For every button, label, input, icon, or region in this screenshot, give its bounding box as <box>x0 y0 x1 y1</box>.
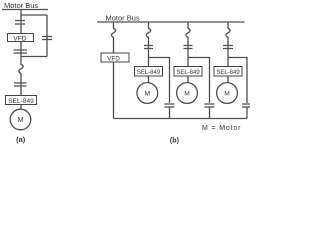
label: Motor Bus (diagram a) <box>4 1 38 10</box>
bottom VFD bus (b) <box>114 118 248 120</box>
fuse in VFD feeder (b) <box>111 26 115 38</box>
wire: VFD to bottom bus (b) <box>113 62 115 119</box>
caption (b) <box>170 135 180 144</box>
wire: bus to VFD (a) <box>20 10 22 34</box>
svg-text:M = Motor: M = Motor <box>202 125 241 132</box>
disconnect in tap 2 (b) <box>205 104 215 107</box>
bus bar (diagram b) <box>97 21 245 23</box>
svg-text:SEL-849: SEL-849 <box>8 98 34 105</box>
wire: bypass branch top (a) <box>21 14 47 16</box>
wire: bus drop branch 1 (b) <box>148 22 150 26</box>
wire: SEL-849 to motor 1 (b) <box>148 76 150 83</box>
disconnect above SEL-849 (a) <box>14 83 27 86</box>
svg-text:M: M <box>184 91 190 98</box>
fuse branch 3 (b) <box>226 26 230 38</box>
wire: tap to bypass, branch 2 (b) <box>188 58 210 104</box>
relay SEL-849 box (a) <box>6 96 37 105</box>
wire: SEL-849 to motor (a) <box>20 105 22 110</box>
relay SEL-849 box branch 2 (b) <box>174 67 202 77</box>
svg-text:(b): (b) <box>170 135 180 144</box>
wire: bypass branch bottom (a) <box>21 56 47 58</box>
label: Motor Bus (diagram b) <box>106 13 140 22</box>
svg-text:SEL-849: SEL-849 <box>216 70 240 76</box>
motor M3 (b) <box>217 83 238 104</box>
disconnect branch 3 (b) <box>223 46 233 49</box>
relay SEL-849 box branch 1 (b) <box>135 67 163 77</box>
svg-text:SEL-849: SEL-849 <box>137 70 161 76</box>
wire: tap to bypass, branch 3 (b) <box>228 58 247 104</box>
wire: bypass branch right vertical (a) <box>46 15 48 57</box>
svg-text:M: M <box>224 91 230 98</box>
svg-text:VFD: VFD <box>13 35 26 42</box>
disconnect in tap 3 (b) <box>242 104 252 107</box>
svg-text:(a): (a) <box>16 135 26 144</box>
svg-text:VFD: VFD <box>107 55 120 62</box>
disconnect branch 2 (b) <box>184 46 193 49</box>
wire: SEL-849 to motor 3 (b) <box>227 76 229 83</box>
VFD box (a) <box>8 34 34 43</box>
disconnect above VFD (a) <box>15 21 25 25</box>
disconnect branch 1 (b) <box>144 46 153 49</box>
relay SEL-849 box branch 3 (b) <box>214 67 242 77</box>
VFD box (b) <box>101 53 129 62</box>
wire: fuse to SEL-849 (a) <box>20 74 22 96</box>
caption (a) <box>16 135 26 144</box>
wire: fuse to VFD box (b) <box>113 38 115 53</box>
wire: tap 1 to bottom bus (b) <box>169 107 171 119</box>
fuse branch 1 (b) <box>146 26 150 38</box>
wire: VFD to junction (a) <box>20 42 22 63</box>
wire: bus to fuse, VFD feeder (b) <box>113 22 115 26</box>
wire: bus drop branch 2 (b) <box>187 22 189 26</box>
bus bar (diagram a) <box>2 9 48 11</box>
wire: tap 2 to bottom bus (b) <box>209 107 211 119</box>
svg-text:SEL-849: SEL-849 <box>176 70 200 76</box>
legend: M = Motor <box>202 125 241 132</box>
disconnect in bypass branch (a) <box>42 37 52 40</box>
fuse branch 2 (b) <box>186 26 190 38</box>
svg-text:Motor Bus: Motor Bus <box>4 1 38 10</box>
wire: fuse to SEL-849 branch 2 (b) <box>187 38 189 67</box>
svg-text:M: M <box>18 117 24 124</box>
disconnect below VFD (a) <box>14 50 28 53</box>
wire: fuse to SEL-849 branch 1 (b) <box>148 38 150 67</box>
svg-text:Motor Bus: Motor Bus <box>106 13 140 22</box>
disconnect in tap 1 (b) <box>165 104 175 107</box>
wire: fuse to SEL-849 branch 3 (b) <box>227 38 229 67</box>
fuse (a) <box>19 62 23 74</box>
wire: tap 3 to bottom bus (b) <box>246 107 248 119</box>
wire: SEL-849 to motor 2 (b) <box>187 76 189 83</box>
svg-text:M: M <box>145 91 151 98</box>
motor M (a) <box>10 109 31 130</box>
wire: tap to bypass, branch 1 (b) <box>149 58 170 104</box>
motor M1 (b) <box>137 83 158 104</box>
wire: bus drop branch 3 (b) <box>227 22 229 26</box>
motor M2 (b) <box>177 83 198 104</box>
